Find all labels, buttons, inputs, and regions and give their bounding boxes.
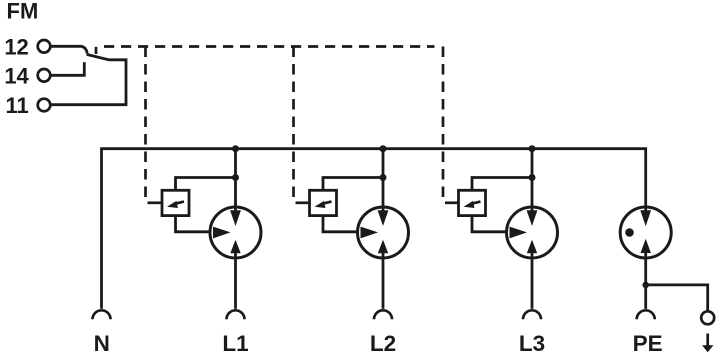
svg-text:12: 12 <box>4 35 28 60</box>
wire L2 to terminal <box>382 253 385 309</box>
svg-text:L1: L1 <box>222 331 248 356</box>
trigger electrode arrow left L1 <box>213 227 231 239</box>
electrode arrow top L3 <box>527 210 538 226</box>
wire PE circle to junction <box>644 253 647 309</box>
flash symbol inside box L2 <box>315 201 332 208</box>
svg-text:FM: FM <box>7 0 39 24</box>
wire box bottom to spark gap L3 <box>472 217 508 232</box>
terminal socket L3 <box>523 310 541 319</box>
terminal 14 <box>4 64 50 89</box>
dashed linkage horizontal wire <box>104 45 435 48</box>
flash symbol inside box L3 <box>464 201 481 208</box>
dashed trigger wire to arrester L3 <box>442 47 445 202</box>
dashed trigger wire to arrester L1 <box>144 47 147 202</box>
electrode arrow bottom PE <box>641 239 651 253</box>
wire box bottom to spark gap L2 <box>323 217 359 232</box>
electrode arrow top PE <box>640 210 651 226</box>
trigger box (surge trigger circuit) L3 <box>459 190 486 215</box>
wire 11 + switch blade K1 <box>51 54 126 104</box>
node bus junction L1 <box>232 145 239 152</box>
wire L1 to terminal <box>234 253 237 309</box>
trigger box (surge trigger circuit) L2 <box>310 190 337 215</box>
terminal 12 <box>4 35 50 60</box>
electrode arrow top L1 <box>230 210 241 226</box>
svg-text:PE: PE <box>633 331 663 356</box>
spark gap (circle) L3 <box>507 207 558 258</box>
electrode arrow bottom L1 <box>230 240 240 254</box>
trigger electrode arrow left L3 <box>510 227 528 239</box>
bus wire: N drop, horizontal bus, PE drop <box>102 149 646 309</box>
wire L1 drop from bus <box>234 149 237 211</box>
terminal socket PE <box>637 310 655 319</box>
gas discharge tube PE (circle) <box>620 207 671 258</box>
svg-text:11: 11 <box>6 93 29 118</box>
wire L3 to terminal <box>531 253 534 309</box>
svg-text:L2: L2 <box>370 331 396 356</box>
mechanical link tick at switch blade <box>95 47 98 54</box>
wire branch to trigger box L2 <box>323 178 383 191</box>
node branch junction L1 <box>232 174 239 181</box>
node PE junction <box>642 282 649 289</box>
svg-text:L3: L3 <box>519 331 545 356</box>
wire box bottom to spark gap L1 <box>176 217 212 232</box>
terminal socket L2 <box>374 310 392 319</box>
flash symbol inside box L1 <box>167 201 184 208</box>
node branch junction L3 <box>529 174 536 181</box>
terminal 11 <box>6 93 51 118</box>
spark gap (circle) L2 <box>358 207 409 258</box>
svg-text:14: 14 <box>4 64 29 89</box>
node bus junction L3 <box>529 145 536 152</box>
electrode arrow bottom L3 <box>527 240 537 254</box>
wire L2 drop from bus <box>382 149 385 211</box>
trigger electrode arrow left L2 <box>361 227 379 239</box>
electrode arrow top L2 <box>378 210 389 226</box>
electrode arrow bottom L2 <box>378 240 388 254</box>
node branch junction L2 <box>380 174 387 181</box>
wire PE branch to ground ring <box>646 285 708 311</box>
terminal socket N <box>93 310 111 319</box>
wire branch to trigger box L1 <box>176 178 236 191</box>
ground ring terminal <box>701 311 714 324</box>
node bus junction L2 <box>380 145 387 152</box>
wire 14 (NO fixed contact step) <box>50 62 84 75</box>
wire branch to trigger box L3 <box>472 178 532 191</box>
spark gap (circle) L1 <box>210 207 261 258</box>
svg-text:N: N <box>94 331 110 356</box>
wire L3 drop from bus <box>531 149 534 211</box>
terminal socket L1 <box>227 310 245 319</box>
dashed trigger wire to arrester L2 <box>292 47 295 202</box>
wire 12 (NC fixed contact with hook) <box>50 46 87 53</box>
earth arrow <box>702 334 713 353</box>
trigger box (surge trigger circuit) L1 <box>162 190 189 215</box>
gas-filled indicator dot PE <box>625 228 634 237</box>
